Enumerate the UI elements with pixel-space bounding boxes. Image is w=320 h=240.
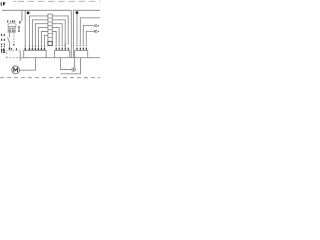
right nest wire 5 [52,32,56,45]
pin blob L1 [9,48,11,50]
lamp H1 [72,68,76,72]
panel 2 wire 2 [80,18,100,45]
panel 1 top border [2,9,71,11]
panel 2 wire 1 [76,13,78,44]
dashed box solid right edge [19,51,21,61]
cable tag text [18,21,20,32]
wire L1 upper [9,32,11,37]
plug body [8,23,16,28]
title text IP [1,2,6,5]
left nest wire 5 [41,32,48,45]
plug label text [7,20,15,22]
pin numbers row [11,48,17,50]
bottom rail [20,57,100,59]
terminal strip bottom cell emphasized [48,41,52,45]
panel 2 wire 3 [83,26,93,45]
mechanical link dashed [13,32,15,44]
panel divider left wall [70,10,72,57]
plug base line [8,31,16,33]
plug terminal 2 [13,28,16,32]
motor M1 [12,66,20,74]
lamp feed wire top [74,58,76,68]
link arrowhead [13,44,15,46]
connector pins box L [25,45,46,50]
panel 2 top border [73,9,100,11]
cross-reference column [1,34,5,47]
wire to motor [19,58,35,70]
left nest wire 2 [32,20,48,45]
left nest wire 6 [44,35,48,44]
panel divider right wall [72,10,74,57]
top dashed ruler [13,0,16,2]
cross-reference label 15 [1,49,5,53]
left nest wire 3 [35,24,48,45]
junction dot panel 2 [76,11,79,14]
destination label 4D [93,30,97,32]
connector box L [24,50,47,57]
terminal strip [48,14,52,45]
connector pins box R [76,45,87,50]
plug terminal 1 [8,28,11,32]
left nest wire 1 [29,16,48,45]
right nest wire 4 [52,28,59,45]
riser wire from top border [24,10,26,45]
enclosure dashed separator [0,77,100,79]
return wire [61,58,81,74]
plug body inner line [8,26,16,28]
connector box R [75,51,88,58]
left nest wire 4 [38,28,48,45]
connector box M [55,51,70,58]
right nest wire 2 [52,20,65,45]
junction dot panel 1 [27,12,30,15]
right nest wire 3 [52,24,62,45]
dashed local box [7,51,21,58]
destination label 1D [94,25,97,27]
wire L1 lower [9,42,11,47]
terminal strip rungs [48,18,52,41]
right nest wire 1 [52,16,68,45]
panel 2 wire 4 [86,31,93,45]
switch contact [8,38,10,43]
lamp feed wire left [61,58,72,70]
cable tag stub [21,10,23,21]
connector pins box M [55,44,69,50]
